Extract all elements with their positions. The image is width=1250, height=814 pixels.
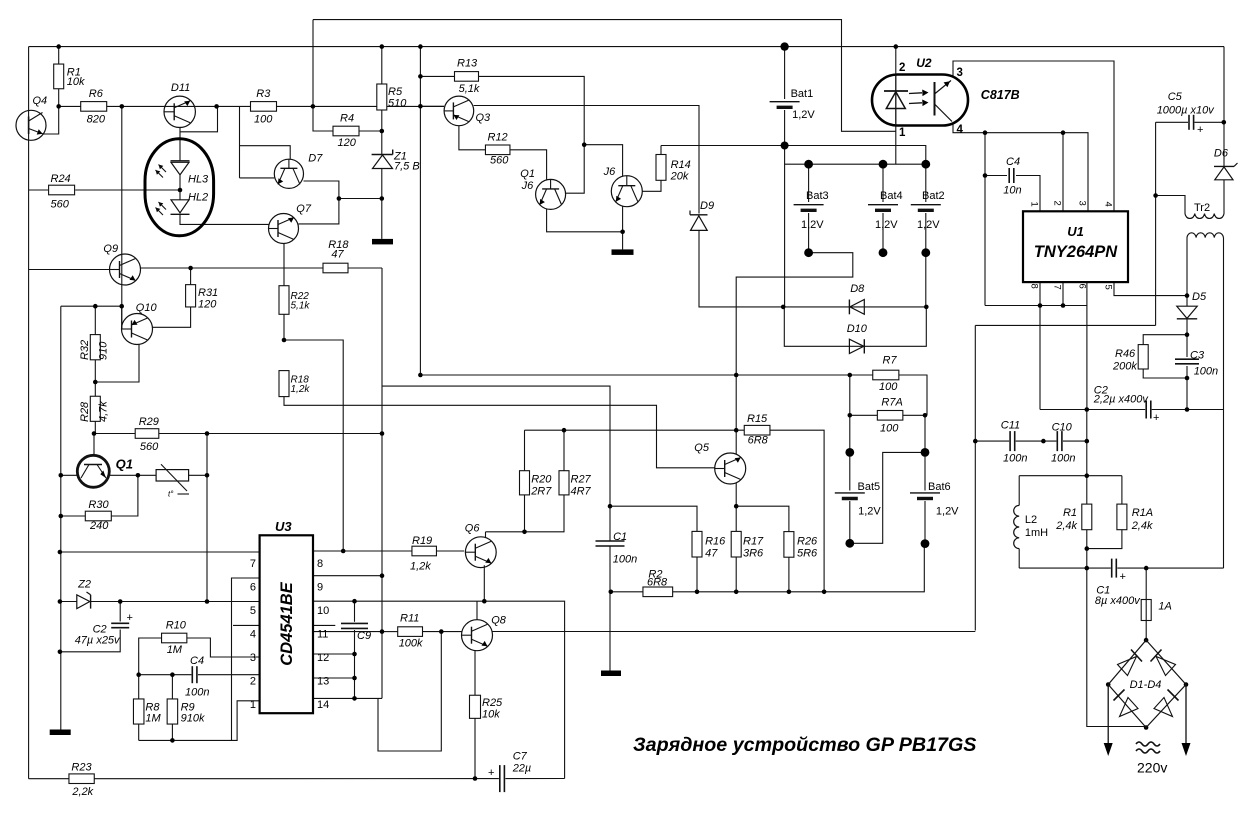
wire U3 pin11 row xyxy=(313,631,382,633)
bridge diode top-left xyxy=(1118,650,1143,676)
svg-text:R26: R26 xyxy=(797,536,818,548)
svg-text:4,7k: 4,7k xyxy=(98,401,110,422)
svg-text:5: 5 xyxy=(250,605,256,617)
svg-text:4R7: 4R7 xyxy=(571,486,592,498)
junction bridge right xyxy=(1184,682,1189,687)
wire R30 right riser xyxy=(112,475,138,516)
wire R46 bottom link xyxy=(1143,369,1187,378)
svg-text:1,2k: 1,2k xyxy=(291,384,311,395)
svg-text:R1: R1 xyxy=(1063,507,1077,519)
svg-text:D10: D10 xyxy=(847,323,868,335)
wire R20 R27 bottoms xyxy=(525,495,565,532)
wire Bat3 minus link xyxy=(736,253,853,375)
junction R15 left xyxy=(734,428,739,433)
resistor R7A xyxy=(877,411,903,421)
transistor Q6 xyxy=(465,537,496,568)
svg-text:U3: U3 xyxy=(275,519,292,534)
svg-text:510: 510 xyxy=(388,98,407,110)
capacitor C4 100n xyxy=(192,666,197,683)
transformer Tr2 secondary xyxy=(1187,233,1223,238)
wire Q1 base xyxy=(61,474,78,476)
svg-text:Q5: Q5 xyxy=(694,442,710,454)
junction R11-Q8 xyxy=(439,629,444,634)
transistor Q4 xyxy=(16,110,46,140)
svg-text:+: + xyxy=(127,612,133,624)
junction HL2-R24 xyxy=(178,188,183,193)
wire D11 emitter loop xyxy=(180,106,218,131)
svg-text:Q6: Q6 xyxy=(465,523,481,535)
wire Z1 anode to ground xyxy=(381,169,383,239)
svg-text:10k: 10k xyxy=(67,76,85,88)
wire R1 column mid xyxy=(1086,410,1088,505)
transistor J6 xyxy=(611,176,642,207)
wire HL chain upper xyxy=(179,132,181,161)
diode D8 xyxy=(849,300,864,315)
svg-text:R5: R5 xyxy=(388,86,403,98)
junction bridge left xyxy=(1106,682,1111,687)
junction L2 top row xyxy=(1085,473,1090,478)
wire R11 left xyxy=(382,631,398,633)
wire Bat2 column low xyxy=(925,213,927,253)
junction Bat6 top xyxy=(921,448,930,457)
wire Bat1 feed row xyxy=(661,146,926,165)
wire R10 left riser xyxy=(139,638,162,675)
svg-text:Q1: Q1 xyxy=(116,457,133,472)
svg-text:4: 4 xyxy=(250,629,256,641)
wire fuse column xyxy=(1145,568,1147,599)
wire C4 right xyxy=(1016,176,1040,212)
svg-text:10: 10 xyxy=(317,605,329,617)
svg-text:10n: 10n xyxy=(1003,185,1021,197)
svg-text:Bat3: Bat3 xyxy=(806,190,829,202)
svg-text:HL3: HL3 xyxy=(188,174,209,186)
svg-text:6R8: 6R8 xyxy=(748,435,769,447)
capacitor C5 xyxy=(1189,115,1194,130)
capacitor C9 xyxy=(341,623,368,628)
svg-text:3: 3 xyxy=(1077,201,1088,206)
wire Z2 pin5 row xyxy=(60,601,77,603)
svg-text:Bat6: Bat6 xyxy=(928,481,951,493)
optocoupler U2 transistor xyxy=(935,81,953,122)
wire R19 to Q6 base xyxy=(437,550,465,552)
junction Bat3 bottom xyxy=(804,248,813,257)
wire U3 pin10 row xyxy=(313,600,355,602)
wire x975 vertical xyxy=(974,325,976,630)
svg-text:J6: J6 xyxy=(603,166,617,178)
svg-text:Q9: Q9 xyxy=(103,243,118,255)
junction R46-C3 xyxy=(1185,376,1190,381)
junction C9 top xyxy=(352,599,357,604)
junction Z2 left xyxy=(58,599,63,604)
wire R29 line left xyxy=(94,433,135,435)
ground under C1 100n xyxy=(601,671,621,677)
wire R46 top link xyxy=(1143,335,1187,345)
wire Q8 collector xyxy=(476,601,478,620)
junction C2e gnd xyxy=(58,650,63,655)
junction Q5 emitter xyxy=(734,504,739,509)
wire R13 to J6 drop xyxy=(478,76,584,193)
wire Tr2 sec right long vertical xyxy=(1223,238,1225,569)
junction Bat2 bottom xyxy=(921,248,930,257)
junction C11 left xyxy=(973,439,978,444)
svg-text:C4: C4 xyxy=(1006,156,1020,168)
junction C9 pin14 xyxy=(352,696,357,701)
svg-text:47µ x25v: 47µ x25v xyxy=(75,635,121,647)
wire pin8 net to C2 xyxy=(1039,306,1041,410)
svg-text:2: 2 xyxy=(899,62,905,74)
wire R1A bottom tie xyxy=(1087,530,1122,549)
battery Bat6 xyxy=(910,493,940,499)
svg-text:1,2k: 1,2k xyxy=(410,561,431,573)
junction y375-R7 xyxy=(848,373,853,378)
junction R32 top xyxy=(93,304,98,309)
wire bottom rail xyxy=(611,591,643,593)
wire C11 C10 row a xyxy=(975,440,1009,442)
wire D7-Z1 tie xyxy=(339,198,382,200)
svg-text:2,4k: 2,4k xyxy=(1055,520,1077,532)
svg-text:14: 14 xyxy=(317,699,329,711)
wire R20 column xyxy=(524,430,526,471)
wire R18 to down corner xyxy=(348,267,382,269)
wire D8 line xyxy=(783,306,926,308)
wire Q1J6 emitter xyxy=(547,209,623,232)
svg-text:Bat1: Bat1 xyxy=(791,88,814,100)
svg-text:+: + xyxy=(488,767,494,779)
junction bus-U2pin2 xyxy=(894,44,899,49)
wire R27 column xyxy=(563,430,565,471)
optocoupler U2 xyxy=(872,75,968,126)
svg-text:1,2V: 1,2V xyxy=(875,219,898,231)
resistor R3 xyxy=(251,102,277,112)
wire D7 base top xyxy=(240,146,291,160)
wire U3 pin14 row xyxy=(313,697,382,699)
junction C9 pin13 xyxy=(352,676,357,681)
junction U2pin4-x985 xyxy=(983,130,988,135)
wire C3 bottom xyxy=(1186,366,1188,410)
wire Bat5 column xyxy=(849,375,851,491)
svg-text:6R8: 6R8 xyxy=(647,577,668,589)
junction R27 top xyxy=(562,428,567,433)
junction Bat5 top xyxy=(845,448,854,457)
wire Bat5 column low xyxy=(849,501,851,543)
wire Q4 emitter stub xyxy=(43,106,59,134)
junction D8 left xyxy=(781,305,786,310)
svg-text:R16: R16 xyxy=(705,536,726,548)
IC U1 TNY264PN xyxy=(1023,211,1128,282)
junction C1 top xyxy=(608,504,613,509)
svg-text:1,2V: 1,2V xyxy=(858,506,881,518)
wire pin10 row to corner xyxy=(355,601,565,778)
svg-text:Z2: Z2 xyxy=(77,579,91,591)
wire R17 bottom xyxy=(735,557,737,592)
wire Tr2 primary left feed xyxy=(1156,196,1185,214)
wire bottom rail right of R2 xyxy=(673,544,925,592)
svg-text:Bat4: Bat4 xyxy=(880,190,903,202)
bridge diode bottom-right xyxy=(1154,690,1179,717)
wire left border vertical xyxy=(28,47,30,779)
wire C4e row to pin2 xyxy=(198,674,260,676)
wire C1 column xyxy=(609,506,611,541)
wire C1cap row left xyxy=(1019,567,1111,569)
wire R13 drop to J6 collector xyxy=(584,145,622,177)
wire U3 pin6 column xyxy=(232,578,260,740)
transistor D7 xyxy=(274,159,303,188)
svg-text:20k: 20k xyxy=(670,171,689,183)
junction R6 left xyxy=(56,104,61,109)
junction C5 leg xyxy=(1153,193,1158,198)
svg-text:R3: R3 xyxy=(256,88,271,100)
junction Bat4 top xyxy=(879,160,888,169)
wire battery top rail xyxy=(785,163,926,165)
wire Q5 emitter to R26 xyxy=(736,506,789,531)
wire Q3 emitter xyxy=(459,126,486,150)
junction Q6em-Q8col xyxy=(482,599,487,604)
wire U1 pins876 tie xyxy=(985,282,1087,306)
svg-text:HL2: HL2 xyxy=(188,192,208,204)
svg-text:Q1: Q1 xyxy=(520,168,535,180)
svg-text:TNY264PN: TNY264PN xyxy=(1034,243,1119,261)
svg-text:C817B: C817B xyxy=(981,88,1020,102)
svg-text:R7A: R7A xyxy=(881,396,902,408)
wire R8 bottom xyxy=(138,724,140,740)
svg-text:C4: C4 xyxy=(190,655,204,667)
optocoupler U2 arrows xyxy=(909,90,929,107)
fuse 1A xyxy=(1141,600,1151,621)
svg-text:3R6: 3R6 xyxy=(743,548,764,560)
svg-text:22µ: 22µ xyxy=(512,763,532,775)
wire Q6 collector riser xyxy=(485,532,487,538)
wire U3 pin9 row xyxy=(313,575,382,577)
wire Q8 emitter to R25 xyxy=(474,651,476,696)
svg-text:3: 3 xyxy=(250,652,256,664)
junction C2-C3 column xyxy=(1185,407,1190,412)
junction bus-x420 xyxy=(418,44,423,49)
svg-text:+: + xyxy=(1153,412,1159,424)
junction pin8 tie xyxy=(1038,303,1043,308)
svg-text:3: 3 xyxy=(957,67,963,79)
wire R17 column xyxy=(735,506,737,531)
wire C4e row left xyxy=(139,674,192,676)
wire U2 pin3 to U1 pin4 xyxy=(953,61,1114,211)
wire C2e bottom xyxy=(60,630,120,652)
wire U2 pin2 column xyxy=(895,47,897,75)
junction R7A right xyxy=(923,413,928,418)
svg-text:D8: D8 xyxy=(850,283,865,295)
wire bottom row C7 right xyxy=(505,778,564,780)
wire R1A column xyxy=(1121,476,1123,504)
capacitor C11 xyxy=(1010,431,1015,451)
junction x207-pin5 xyxy=(205,599,210,604)
resistor R6 xyxy=(81,102,107,112)
junction C1cap left xyxy=(1085,566,1090,571)
svg-text:560: 560 xyxy=(51,199,70,211)
svg-text:R11: R11 xyxy=(400,613,419,625)
junction thermistor right xyxy=(205,473,210,478)
junction D7-Z1 a xyxy=(337,196,342,201)
junction pin7 tie xyxy=(1061,303,1066,308)
junction R22 bottom xyxy=(282,338,287,343)
wire D7 emitter left xyxy=(240,177,275,179)
svg-text:R10: R10 xyxy=(166,620,187,632)
wire R16 bottom xyxy=(696,557,698,592)
resistor R4 xyxy=(333,126,359,136)
svg-text:R27: R27 xyxy=(571,474,592,486)
resistor R26 xyxy=(784,532,794,558)
wire Q3 collector to D9 xyxy=(474,106,699,214)
svg-text:R31: R31 xyxy=(198,287,218,299)
wire R7A row right xyxy=(903,414,925,416)
junction Bat4 bottom xyxy=(879,248,888,257)
wire C4 to U1 pin1 xyxy=(985,175,1007,177)
junction Bat3 top xyxy=(804,160,813,169)
junction R4-Z1 xyxy=(380,129,385,134)
wire Bat4 column low xyxy=(882,213,884,253)
svg-text:D11: D11 xyxy=(171,82,190,94)
wire U2 pin1 column xyxy=(895,126,897,165)
svg-text:200k: 200k xyxy=(1112,361,1137,373)
wire R15 right down xyxy=(770,430,824,592)
junction fuse top xyxy=(1144,566,1149,571)
junction Bat1 minus xyxy=(781,142,789,150)
wire y325 row xyxy=(975,324,1155,326)
resistor R31 xyxy=(186,285,196,307)
wire C5 left leg xyxy=(1155,122,1157,325)
junction bus-R5 xyxy=(380,44,385,49)
wire R6-R3 row xyxy=(59,105,444,107)
junction C2-R1 column xyxy=(1085,407,1090,412)
wire U1 pin5 to D5 xyxy=(1114,282,1187,296)
junction Bat6 bottom xyxy=(921,539,930,548)
svg-text:Bat2: Bat2 xyxy=(922,190,945,202)
wire R16 top row xyxy=(610,506,697,531)
wire U3 pin8 row xyxy=(313,550,343,552)
svg-text:5R6: 5R6 xyxy=(797,548,818,560)
svg-text:820: 820 xyxy=(87,113,106,125)
wire bottom row left xyxy=(29,778,69,780)
wire HL chain middle xyxy=(179,175,181,200)
wire mid row y386 to C1 xyxy=(382,386,610,506)
wire Bat6 column low xyxy=(924,501,926,544)
wire Q1 collector up xyxy=(93,434,95,456)
wire D7 base riser xyxy=(239,106,241,177)
svg-text:U1: U1 xyxy=(1067,224,1084,239)
resistor R22 xyxy=(279,286,289,315)
bridge diode top-right xyxy=(1151,650,1176,676)
wire R6 junction vertical to Q10 xyxy=(121,106,123,329)
wire Q3 base xyxy=(420,105,444,107)
junction Bat5 bottom xyxy=(845,539,854,548)
wire Q10 top feed xyxy=(61,306,122,329)
svg-text:Зарядное устройство GP PB17GS: Зарядное устройство GP PB17GS xyxy=(633,734,976,756)
diode D9 xyxy=(690,211,708,231)
capacitor C4 10n xyxy=(1009,168,1014,183)
wire R10 row xyxy=(161,637,163,639)
wire L2 column top xyxy=(1018,476,1020,506)
svg-text:R6: R6 xyxy=(89,88,104,100)
svg-text:C10: C10 xyxy=(1052,422,1073,434)
svg-text:U2: U2 xyxy=(916,56,932,70)
svg-text:560: 560 xyxy=(490,155,509,167)
svg-text:1: 1 xyxy=(899,127,906,139)
wire Q7 collector riser xyxy=(298,199,339,224)
wire L2 R1 top row xyxy=(1019,475,1122,477)
svg-text:1M: 1M xyxy=(167,644,183,656)
junction C11-C10 xyxy=(1041,439,1046,444)
resistor R30 xyxy=(85,511,111,521)
wire R18b bottom to Q5 base row xyxy=(284,397,715,468)
capacitor C2 2,2u xyxy=(1146,401,1151,419)
svg-text:2,4k: 2,4k xyxy=(1131,520,1153,532)
svg-text:1mH: 1mH xyxy=(1025,527,1048,539)
wire x420 vertical xyxy=(419,47,421,375)
battery Bat4 xyxy=(868,205,898,211)
LED HL3 xyxy=(156,161,190,178)
transistor D11 xyxy=(164,96,195,127)
svg-text:1,2V: 1,2V xyxy=(917,219,940,231)
svg-text:Q10: Q10 xyxy=(136,302,158,314)
wire U3 pin13 row xyxy=(313,677,355,679)
svg-text:D1-D4: D1-D4 xyxy=(1130,679,1162,691)
battery Bat5 xyxy=(835,493,865,499)
wire HL chain lower to Q7 base xyxy=(180,215,269,224)
inductor L2 xyxy=(1014,505,1020,548)
junction D11 collector xyxy=(214,104,219,109)
resistor R12 xyxy=(485,145,510,155)
wire R11 right net xyxy=(378,632,441,751)
svg-text:C11: C11 xyxy=(1001,420,1020,432)
wire D5 bottom xyxy=(1186,319,1188,357)
resistor R10 xyxy=(162,633,187,643)
svg-text:2R7: 2R7 xyxy=(530,486,552,498)
svg-text:1: 1 xyxy=(1029,202,1040,207)
wire U3 pin11 stub xyxy=(313,624,335,626)
wire R5 to R4 junction xyxy=(381,110,383,155)
wire R11 to Q8 base xyxy=(423,631,462,633)
resistor R23 xyxy=(69,774,94,784)
junction C9 pin12 xyxy=(352,652,357,657)
svg-text:R29: R29 xyxy=(139,416,159,428)
wire Q1J6 collector xyxy=(565,192,567,194)
svg-text:R13: R13 xyxy=(457,58,478,70)
wire R7 right corner down xyxy=(899,375,927,415)
capacitor C2 47u xyxy=(111,623,129,627)
transistor Q1 J6 xyxy=(536,179,566,209)
resistor R9 xyxy=(167,699,178,724)
junction Q10 top xyxy=(119,304,124,309)
junction C4e-R9 xyxy=(170,672,175,677)
wire R28 bottom xyxy=(94,421,96,433)
svg-text:+: + xyxy=(1120,571,1126,583)
svg-text:6: 6 xyxy=(250,582,256,594)
junction R13 left xyxy=(418,74,423,79)
svg-text:Q3: Q3 xyxy=(476,112,492,124)
svg-text:1000µ x10v: 1000µ x10v xyxy=(1157,105,1216,117)
wire C5 row xyxy=(1156,121,1188,123)
wire Q9 collector row to R18 xyxy=(141,267,324,269)
transistor Q8 xyxy=(462,620,493,651)
svg-text:4: 4 xyxy=(957,124,964,136)
junction bus-Bat1 xyxy=(780,42,788,50)
resistor R19 xyxy=(412,546,437,556)
junction Q3 base xyxy=(418,104,423,109)
wire D5 to C3 node xyxy=(1186,296,1188,306)
junction rail R16 xyxy=(695,590,700,595)
wire top bus upper xyxy=(313,20,896,132)
svg-text:13: 13 xyxy=(317,676,329,688)
svg-text:C5: C5 xyxy=(1168,91,1183,103)
junction C1-R2 xyxy=(609,590,614,595)
AC squiggle xyxy=(1136,742,1160,753)
